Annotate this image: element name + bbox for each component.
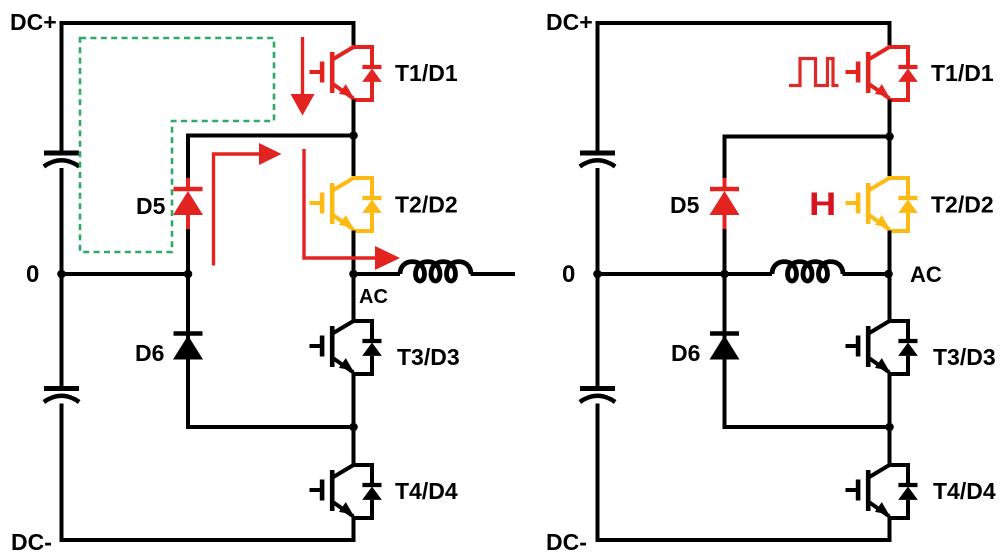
node: right 0 rail junction dot xyxy=(593,270,602,279)
wire: left rail lower segment to DC- corner xyxy=(60,404,64,541)
wire: inductor to output end xyxy=(471,272,516,276)
svg-text:T2/D2: T2/D2 xyxy=(931,192,994,218)
diode D6 (black clamp diode, right circuit) xyxy=(710,334,740,360)
wire: T2 emitter through AC node to T3 collector xyxy=(352,231,356,322)
transistor T2 with diode D2 (yellow IGBT) xyxy=(310,178,382,231)
node: 0 rail junction dot xyxy=(57,270,66,279)
svg-text:D6: D6 xyxy=(671,340,700,366)
svg-text:D5: D5 xyxy=(670,192,700,218)
wire: left rail middle segment xyxy=(60,168,64,386)
wire: bottom DC- rail to T4 emitter xyxy=(60,518,354,541)
svg-text:T4/D4: T4/D4 xyxy=(395,478,458,504)
wire: AC node to inductor xyxy=(354,272,401,276)
node: right junction dot T1/T2 midpoint xyxy=(885,132,894,141)
wire: right rail lower segment to DC- corner xyxy=(596,404,600,541)
node: right AC junction dot xyxy=(884,270,893,279)
diode D6 branch wire (right circuit) xyxy=(725,274,890,427)
green dashed commutation loop xyxy=(80,38,274,252)
wire: inductor to AC node xyxy=(843,272,890,276)
red current arrow 2 (up from D5 then right) xyxy=(214,143,282,266)
wire: right circuit left rail upper segment xyxy=(596,21,600,151)
wire: left DC bus rail (top rail from DC+ corner to T1 collector) xyxy=(62,23,354,47)
node: junction dot T1/T2 midpoint xyxy=(349,131,358,140)
diode D5 (red clamp diode) with red leads xyxy=(173,178,203,229)
svg-text:H: H xyxy=(809,185,836,222)
wire: right T2 emitter through AC node to T3 collector xyxy=(888,231,892,322)
svg-text:T1/D1: T1/D1 xyxy=(395,60,458,86)
wire: T3 emitter to T3/T4 junction xyxy=(352,374,356,466)
inductor L (coil between 0 branch and AC, right circuit) xyxy=(772,262,843,281)
diode D5 (red clamp diode, right circuit) xyxy=(710,178,740,229)
svg-text:DC+: DC+ xyxy=(10,9,57,35)
svg-text:DC+: DC+ xyxy=(546,9,593,35)
wire: right DC bus top rail to T1 collector xyxy=(598,23,890,47)
wire: left circuit left rail upper segment xyxy=(60,21,64,151)
svg-text:DC-: DC- xyxy=(11,529,52,555)
node: AC output junction dot xyxy=(349,270,358,279)
wire: T1 emitter to T2 collector xyxy=(352,100,356,179)
svg-text:DC-: DC- xyxy=(546,529,587,555)
node: right clamp branch junction dot xyxy=(720,270,729,279)
wire: clamp branch top (junction to D5 cathode) xyxy=(188,136,354,179)
label H (red gate level for T2) xyxy=(809,185,836,222)
wire: right T1 emitter to T2 collector xyxy=(888,100,892,179)
svg-text:T2/D2: T2/D2 xyxy=(395,192,458,218)
red current arrow 3 (down through T2 then right to AC) xyxy=(304,149,400,270)
capacitor C1 (upper DC-link cap, left circuit) xyxy=(44,153,79,167)
wire: clamp junction to inductor xyxy=(725,272,773,276)
capacitor C3 (upper DC-link cap, right circuit) xyxy=(580,153,615,167)
node: right T3/T4 junction dot xyxy=(885,423,894,432)
diode D6 branch wire (0 junction down and right to T3/T4 midpoint) xyxy=(188,274,354,427)
wire: right D5 anode to 0 node xyxy=(723,229,727,274)
transistor T1 with diode D1 (red IGBT, right circuit) xyxy=(846,47,918,100)
svg-text:T1/D1: T1/D1 xyxy=(931,60,994,86)
transistor T1 with diode D1 (red IGBT) xyxy=(310,47,382,100)
transistor T3 with diode D3 (black IGBT, right circuit) xyxy=(846,321,918,374)
svg-text:AC: AC xyxy=(359,286,388,308)
svg-text:T4/D4: T4/D4 xyxy=(933,478,996,504)
svg-text:AC: AC xyxy=(910,262,942,287)
svg-text:T3/D3: T3/D3 xyxy=(933,344,996,370)
wire: right bottom DC- rail to T4 emitter xyxy=(596,518,890,541)
node: clamp branch junction dot at 0 wire xyxy=(184,270,193,279)
transistor T3 with diode D3 (black IGBT) xyxy=(310,321,382,374)
svg-text:0: 0 xyxy=(26,261,39,288)
wire: D5 anode to 0 node xyxy=(186,229,190,274)
wire: right T3 emitter to T3/T4 junction xyxy=(888,374,892,466)
transistor T2 with diode D2 (yellow IGBT, right circuit) xyxy=(846,178,918,231)
wire: right clamp branch top xyxy=(725,137,890,179)
red current arrow 1 (down through T1) xyxy=(291,37,315,116)
PWM gate waveform symbol (red square wave) xyxy=(789,59,839,86)
transistor T4 with diode D4 (black IGBT) xyxy=(310,465,382,518)
diode D6 (black clamp diode) xyxy=(173,334,203,360)
inductor L (AC output coil, left circuit) xyxy=(400,262,471,281)
svg-text:T3/D3: T3/D3 xyxy=(397,344,460,370)
wire: right 0 node horizontal to clamp branch xyxy=(598,272,725,276)
capacitor C4 (lower DC-link cap, right circuit) xyxy=(580,389,615,403)
svg-text:0: 0 xyxy=(562,261,575,288)
capacitor C2 (lower DC-link cap, left circuit) xyxy=(44,389,79,403)
svg-text:D6: D6 xyxy=(135,340,164,366)
wire: right rail middle segment xyxy=(596,168,600,386)
svg-text:D5: D5 xyxy=(136,193,166,219)
wire: 0 node horizontal wire xyxy=(62,272,189,276)
node: T3/T4 junction dot xyxy=(349,423,358,432)
transistor T4 with diode D4 (black IGBT, right circuit) xyxy=(846,465,918,518)
